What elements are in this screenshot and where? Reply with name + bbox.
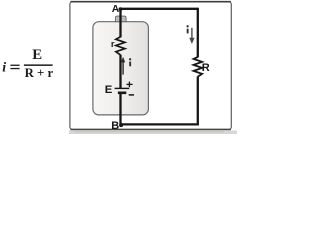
svg-text:E: E — [32, 47, 42, 63]
plus sign — [127, 83, 133, 85]
terminal cap on cell — [115, 16, 126, 22]
battery E short plate (-) — [118, 92, 126, 95]
page-edge shading band below figure — [69, 131, 237, 134]
label i (cell current) — [129, 58, 131, 66]
wire: right branch down to R — [197, 8, 199, 58]
equation i = E/(R+r) — [2, 47, 53, 80]
wire: top from A to right branch — [120, 8, 197, 10]
svg-text:R: R — [202, 62, 210, 74]
current arrow i (upward, inside cell) — [122, 62, 124, 75]
svg-text:i: i — [2, 60, 6, 75]
resistor r (internal resistance) — [116, 37, 125, 55]
wire: bottom from B to right branch — [121, 123, 199, 125]
frame bottom edge — [71, 129, 231, 131]
svg-text:E: E — [105, 84, 113, 96]
svg-text:A: A — [112, 4, 120, 15]
figure frame — [70, 2, 231, 130]
wire: battery to node B — [119, 93, 121, 125]
frame top edge — [71, 1, 231, 3]
svg-text:B: B — [111, 120, 119, 132]
eq fraction bar — [24, 64, 53, 66]
node B junction dot — [119, 123, 123, 127]
resistor R — [194, 57, 203, 77]
battery E long plate (+) — [115, 87, 130, 89]
svg-text:r: r — [111, 39, 115, 50]
current arrow i (downward, external circuit) — [191, 28, 193, 38]
wire: r to battery long plate — [119, 55, 121, 89]
eq equals sign — [10, 65, 19, 66]
node A junction dot — [119, 7, 123, 11]
minus sign — [129, 94, 134, 96]
svg-text:R + r: R + r — [25, 66, 54, 80]
wire: R down to bottom — [197, 76, 199, 124]
wire: left branch from node A down through cap to r — [119, 9, 121, 38]
label i (external current) — [186, 25, 188, 33]
